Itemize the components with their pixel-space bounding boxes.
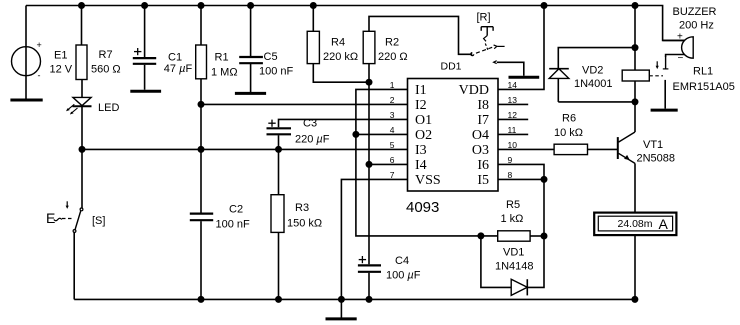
svg-text:C2: C2 (229, 204, 243, 216)
svg-text:7: 7 (390, 170, 395, 180)
wire: bottom rail (74, 298, 635, 300)
junction: pin8/pin9 (541, 176, 548, 183)
junction: VD2 bottom / collector node (632, 98, 639, 105)
resistor R5 (498, 231, 530, 241)
LED (66, 97, 91, 114)
wire: pin14 (VDD) to top rail (498, 6, 544, 90)
wire: LED to node row (81, 106, 83, 149)
wire: pin12 stub (498, 118, 528, 120)
resistor R1 (196, 45, 207, 79)
svg-text:150 kΩ: 150 kΩ (287, 218, 322, 230)
svg-text:1 MΩ: 1 MΩ (211, 67, 238, 79)
junction: C3/R3/row150 (275, 146, 282, 153)
capacitor C2 (190, 214, 213, 221)
junction: C4 / bottom rail (366, 296, 373, 303)
junction: C2 / bottom rail (198, 296, 205, 303)
wire: reset switch to ground (497, 62, 524, 75)
svg-text:E1: E1 (54, 50, 67, 62)
svg-text:BUZZER: BUZZER (673, 6, 717, 18)
svg-text:+: + (677, 32, 683, 43)
svg-text:10: 10 (508, 140, 518, 150)
resistor R4 (307, 31, 319, 63)
junction: R7/top rail (78, 2, 85, 9)
svg-text:9: 9 (508, 155, 513, 165)
svg-text:−: − (678, 53, 684, 64)
svg-text:C5: C5 (264, 51, 278, 63)
svg-text:R4: R4 (331, 37, 345, 49)
diode VD1 branch (481, 236, 544, 296)
svg-text:200 Hz: 200 Hz (679, 20, 714, 32)
wire: pin9 row (I6) (498, 164, 544, 179)
svg-text:R2: R2 (385, 37, 399, 49)
ground (C1) (130, 90, 161, 93)
switch [R] (momentary pushbutton) (471, 27, 505, 64)
junction: R4/top rail (310, 2, 317, 9)
svg-text:100 nF: 100 nF (216, 219, 251, 231)
svg-text:560 Ω: 560 Ω (91, 64, 121, 76)
wire: E1 branch (25, 6, 27, 100)
svg-text:2N5088: 2N5088 (637, 153, 676, 165)
svg-text:3: 3 (390, 110, 395, 120)
ground (E1) (10, 99, 42, 102)
wire: R7 to LED (81, 80, 83, 98)
wire: top supply rail (26, 6, 685, 41)
junction: R2 vertical / pin6 row (366, 161, 373, 168)
svg-text:O3: O3 (472, 143, 489, 158)
ground (buzzer contact) (651, 109, 678, 112)
wire: R2 vertical down to C4 (368, 64, 370, 265)
plus mark C3 (268, 120, 275, 127)
svg-text:I2: I2 (415, 98, 427, 113)
junction: R3 / bottom rail (275, 296, 282, 303)
junction: R1/top rail (198, 2, 205, 9)
wire: pin3 row (O1) to C3 (279, 119, 408, 127)
wire: emitter to ammeter (634, 163, 636, 212)
junction: ammeter / bottom rail (631, 296, 638, 303)
wire: R5 right to node (530, 235, 544, 237)
svg-text:I3: I3 (415, 143, 427, 158)
svg-text:O2: O2 (415, 128, 432, 143)
junction: R1 / pin2 row (198, 101, 205, 108)
wire: collector node to VT1 (634, 102, 636, 132)
svg-text:I5: I5 (477, 173, 489, 188)
capacitor C3 (267, 128, 292, 134)
wire: C1 branch (144, 6, 146, 90)
capacitor C5 (239, 57, 263, 63)
svg-text:VD2: VD2 (582, 65, 603, 77)
wire: R6 to VT1 base (588, 148, 618, 150)
svg-text:220 kΩ: 220 kΩ (323, 51, 358, 63)
svg-text:C1: C1 (168, 52, 182, 64)
wire: R2 top to reset switch (369, 16, 472, 54)
svg-text:DD1: DD1 (441, 61, 462, 73)
svg-text:I4: I4 (415, 158, 427, 173)
svg-text:R3: R3 (295, 202, 309, 214)
junction: R4/R2 node (366, 79, 373, 86)
buzzer (663, 37, 694, 58)
wire: R1 top (200, 6, 202, 46)
wire: R3 bottom (278, 232, 280, 299)
junction: pin1 vertical / pin4 row (352, 131, 359, 138)
junction: LED / row150 / switch S (79, 146, 86, 153)
svg-text:100 nF: 100 nF (259, 66, 294, 78)
svg-text:C4: C4 (395, 255, 409, 267)
svg-text:4: 4 (390, 125, 395, 135)
junction: R5 left node (477, 232, 484, 239)
plus mark C4 (359, 256, 366, 263)
junction: C1/top rail (141, 2, 148, 9)
svg-text:220 Ω: 220 Ω (378, 51, 408, 63)
svg-text:C3: C3 (303, 118, 317, 130)
capacitor C4 (358, 265, 381, 271)
svg-text:+: + (37, 40, 42, 50)
svg-text:100 µF: 100 µF (386, 270, 421, 282)
svg-text:R5: R5 (506, 199, 520, 211)
source E1 (12, 47, 41, 76)
svg-text:VDD: VDD (459, 83, 489, 98)
svg-text:R7: R7 (99, 49, 113, 61)
IC DD1 body (408, 79, 499, 192)
wire: pin13 stub (498, 103, 528, 105)
wire: pins 8-9 down to R5 right node (543, 179, 545, 236)
ground (C5) (235, 92, 266, 95)
plus mark C1 (134, 48, 141, 55)
svg-text:5: 5 (390, 140, 395, 150)
svg-text:1N4001: 1N4001 (574, 78, 613, 90)
svg-text:E: E (46, 210, 55, 226)
wire: C3 bottom to row150 (278, 135, 280, 149)
junction: VDD / top rail (541, 2, 548, 9)
wire: R3 top (278, 149, 280, 194)
svg-text:12 V: 12 V (50, 64, 73, 76)
svg-text:13: 13 (508, 95, 518, 105)
wire: IC pin2 row (201, 103, 408, 105)
svg-text:I8: I8 (477, 98, 489, 113)
svg-text:VSS: VSS (415, 173, 441, 188)
resistor R2 (363, 31, 375, 63)
svg-text:10 kΩ: 10 kΩ (554, 127, 583, 139)
svg-text:VT1: VT1 (643, 139, 663, 151)
svg-text:1: 1 (390, 80, 395, 90)
junction: relay feed / top rail (632, 2, 639, 9)
svg-text:O1: O1 (415, 113, 432, 128)
junction: VSS / bottom rail (338, 296, 345, 303)
switch [S] (54, 149, 83, 299)
wire: pin7 row (VSS) to ground (341, 179, 407, 299)
wire: R1 down to C2 (200, 79, 202, 213)
svg-text:VD1: VD1 (503, 247, 524, 259)
wire: row150 (LED - R1 - C3/R3 - IC pin5) (82, 148, 408, 150)
resistor R3 (271, 195, 284, 233)
diode VD2 branch (549, 48, 635, 102)
wire: coil bottom to collector node (634, 81, 636, 102)
wire: pin1 row (I1) (356, 89, 498, 236)
wire: pin10 row (O3) to R6 (498, 148, 554, 150)
relay RL1 coil (622, 70, 649, 81)
resistor R6 (554, 144, 587, 154)
svg-text:I7: I7 (477, 113, 489, 128)
wire: top rail to relay coil (634, 6, 636, 71)
wire: R4 branch (313, 6, 369, 83)
capacitor C1 (133, 58, 156, 64)
svg-text:LED: LED (98, 102, 119, 114)
wire: ammeter to bottom rail (634, 235, 636, 299)
junction: C5/top rail (247, 2, 254, 9)
junction: R5 right node (541, 233, 548, 240)
svg-text:47 µF: 47 µF (164, 63, 193, 75)
svg-text:11: 11 (508, 125, 517, 135)
svg-text:R6: R6 (562, 113, 576, 125)
relay contact (to buzzer) (649, 57, 668, 109)
ground (switch R) (509, 76, 540, 79)
transistor VT1 (618, 132, 635, 163)
svg-text:R1: R1 (215, 52, 229, 64)
svg-text:2: 2 (390, 95, 395, 105)
resistor R7 (76, 45, 87, 80)
junction: VD2 top / relay feed (632, 44, 639, 51)
svg-text:1 kΩ: 1 kΩ (501, 213, 524, 225)
wire: pin8 row (I5) (498, 178, 544, 180)
svg-text:[S]: [S] (92, 215, 105, 227)
svg-text:-: - (38, 71, 41, 81)
svg-text:4093: 4093 (406, 199, 439, 216)
ammeter (594, 213, 676, 236)
svg-text:220 µF: 220 µF (295, 134, 330, 146)
svg-text:RL1: RL1 (693, 66, 713, 78)
wire: pin11 stub (498, 133, 528, 135)
ground (main) (326, 317, 357, 320)
svg-text:A: A (659, 216, 669, 232)
junction: R1 / row150 (198, 146, 205, 153)
svg-text:6: 6 (390, 155, 395, 165)
svg-text:EMR151A05: EMR151A05 (673, 81, 735, 93)
svg-text:I6: I6 (477, 158, 489, 173)
svg-text:1N4148: 1N4148 (495, 261, 534, 273)
svg-text:8: 8 (508, 170, 513, 180)
svg-text:I1: I1 (415, 83, 427, 98)
svg-text:[R]: [R] (477, 12, 491, 24)
svg-text:12: 12 (508, 110, 518, 120)
wire: C2 bottom to bottom rail (200, 221, 202, 299)
svg-text:14: 14 (508, 80, 518, 90)
wire: R7 top (81, 6, 83, 46)
wire: C5 branch (250, 6, 252, 93)
wire: pin4 row (O2) (356, 133, 408, 135)
wire: C4 bottom to rail (368, 273, 370, 300)
wire: pin6 row (I4) (369, 163, 408, 165)
wire: ground stem below rail (340, 299, 342, 317)
svg-text:24.08m: 24.08m (618, 218, 653, 230)
svg-text:O4: O4 (472, 128, 489, 143)
